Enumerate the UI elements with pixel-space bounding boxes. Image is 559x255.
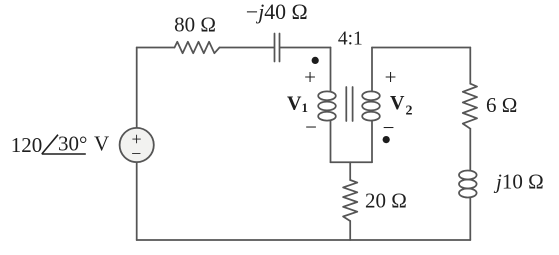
inductor L1 j10ohm loop 3 — [459, 189, 477, 198]
transformer primary winding top lead — [330, 48, 332, 92]
svg-text:V2: V2 — [390, 92, 412, 119]
wire bottom rail — [137, 239, 471, 241]
wire R 20ohm to bottom rail — [349, 221, 351, 240]
svg-text:−: − — [131, 144, 141, 164]
wire R 6ohm to inductor j10ohm — [469, 129, 471, 171]
inductor L1 j10ohm loop 1 — [459, 171, 477, 180]
transformer secondary winding bottom lead — [371, 121, 373, 163]
resistor R3 20ohm — [343, 180, 357, 221]
capacitor C1 -j40ohm plate left — [274, 34, 276, 62]
transformer primary winding loop 3 — [318, 112, 336, 121]
transformer secondary winding top lead — [371, 48, 373, 92]
angle symbol horizontal stroke — [42, 153, 86, 155]
svg-text:j10 Ω: j10 Ω — [493, 169, 544, 193]
wire capacitor to transformer primary top — [280, 47, 331, 49]
resistor R2 6ohm — [463, 84, 477, 129]
capacitor C1 -j40ohm plate right — [279, 34, 281, 62]
wire R 80ohm to capacitor — [220, 47, 275, 49]
wire left vertical bottom (source bottom to bottom rail) — [136, 162, 138, 240]
svg-text:80 Ω: 80 Ω — [174, 13, 216, 37]
svg-text:20 Ω: 20 Ω — [365, 188, 407, 212]
wire transformer center node down to R 20ohm — [349, 162, 351, 180]
transformer primary winding bottom lead — [330, 121, 332, 163]
svg-text:+: + — [385, 65, 397, 89]
svg-text:−j40 Ω: −j40 Ω — [246, 0, 308, 24]
transformer primary winding loop 1 — [318, 91, 336, 100]
transformer secondary winding loop 1 — [362, 91, 380, 100]
svg-text:+: + — [304, 65, 316, 89]
svg-text:6 Ω: 6 Ω — [486, 93, 517, 117]
voltage source VS circle — [120, 128, 154, 162]
wire top left segment to R 80ohm — [137, 47, 175, 49]
svg-text:30°: 30° — [58, 132, 87, 156]
dot secondary polarity mark — [383, 136, 390, 143]
transformer secondary winding loop 3 — [362, 112, 380, 121]
wire transformer secondary top to right branch — [372, 47, 470, 49]
wire left vertical top (source top to top rail) — [136, 48, 138, 128]
angle symbol diagonal stroke — [42, 135, 58, 154]
wire inductor j10ohm to bottom rail — [469, 197, 471, 240]
resistor R1 80ohm — [175, 42, 220, 53]
svg-text:−: − — [383, 116, 395, 140]
dot primary polarity mark — [312, 57, 319, 64]
wire right vertical to R 6ohm — [469, 48, 471, 84]
inductor L1 j10ohm loop 2 — [459, 180, 477, 189]
svg-text:120: 120 — [11, 133, 43, 157]
transformer secondary winding loop 2 — [362, 102, 380, 111]
svg-text:4:1: 4:1 — [338, 28, 363, 49]
transformer primary winding loop 2 — [318, 102, 336, 111]
svg-text:V: V — [94, 132, 109, 156]
wire transformer bottom joining primary and secondary — [331, 161, 373, 163]
transformer core line left — [345, 87, 347, 121]
transformer core line right — [352, 87, 354, 121]
svg-text:V1: V1 — [287, 92, 308, 115]
svg-text:−: − — [305, 115, 317, 139]
